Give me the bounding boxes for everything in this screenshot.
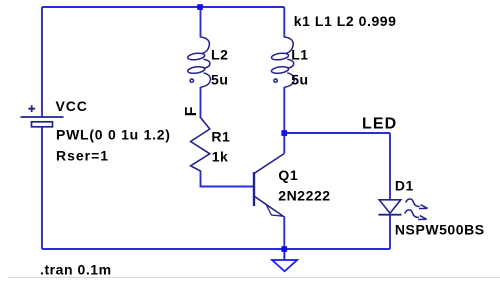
- wire L2 top stub: [200, 7, 202, 38]
- wire R1 to base: [201, 171, 254, 187]
- svg-text:Q1: Q1: [278, 167, 298, 183]
- wire L1 top stub: [283, 7, 285, 38]
- svg-text:LED: LED: [362, 116, 397, 133]
- transistor Q1: [254, 154, 284, 218]
- faint page rule: [8, 277, 500, 279]
- wire left vertical upper: [41, 7, 43, 117]
- svg-text:NSPW500BS: NSPW500BS: [395, 221, 485, 237]
- svg-text:F: F: [183, 106, 200, 116]
- svg-text:.tran 0.1m: .tran 0.1m: [40, 262, 112, 278]
- svg-text:Rser=1: Rser=1: [56, 148, 109, 164]
- wire L2 to R1: [200, 87, 202, 118]
- svg-text:L1: L1: [291, 47, 308, 63]
- node junction collector: [281, 130, 287, 136]
- wire collector vertical: [283, 133, 285, 154]
- node junction emitter-ground: [281, 246, 287, 252]
- wire bottom rail: [42, 248, 390, 250]
- svg-text:1k: 1k: [212, 149, 229, 165]
- wire L1 bottom: [283, 87, 285, 133]
- ground: [272, 249, 297, 271]
- node junction top: [197, 4, 203, 10]
- svg-text:VCC: VCC: [56, 98, 88, 114]
- inductor L1: [271, 37, 294, 87]
- LED D1: [379, 199, 428, 220]
- battery VCC: [21, 105, 64, 127]
- svg-text:L2: L2: [211, 47, 228, 63]
- wire top rail: [42, 6, 284, 8]
- svg-text:5u: 5u: [291, 72, 308, 88]
- svg-text:R1: R1: [211, 128, 230, 144]
- svg-text:D1: D1: [395, 177, 414, 193]
- svg-text:2N2222: 2N2222: [278, 187, 330, 203]
- inductor L2: [187, 37, 210, 87]
- wire LED branch upper: [389, 133, 391, 200]
- wire LED branch lower: [389, 215, 391, 250]
- svg-text:k1 L1 L2 0.999: k1 L1 L2 0.999: [294, 13, 397, 29]
- wire left vertical lower: [41, 127, 43, 250]
- svg-text:PWL(0 0 1u 1.2): PWL(0 0 1u 1.2): [56, 127, 171, 143]
- svg-text:5u: 5u: [211, 72, 228, 88]
- wire emitter vertical: [283, 217, 285, 250]
- wire node LED horizontal: [284, 132, 390, 134]
- resistor R1: [191, 118, 210, 172]
